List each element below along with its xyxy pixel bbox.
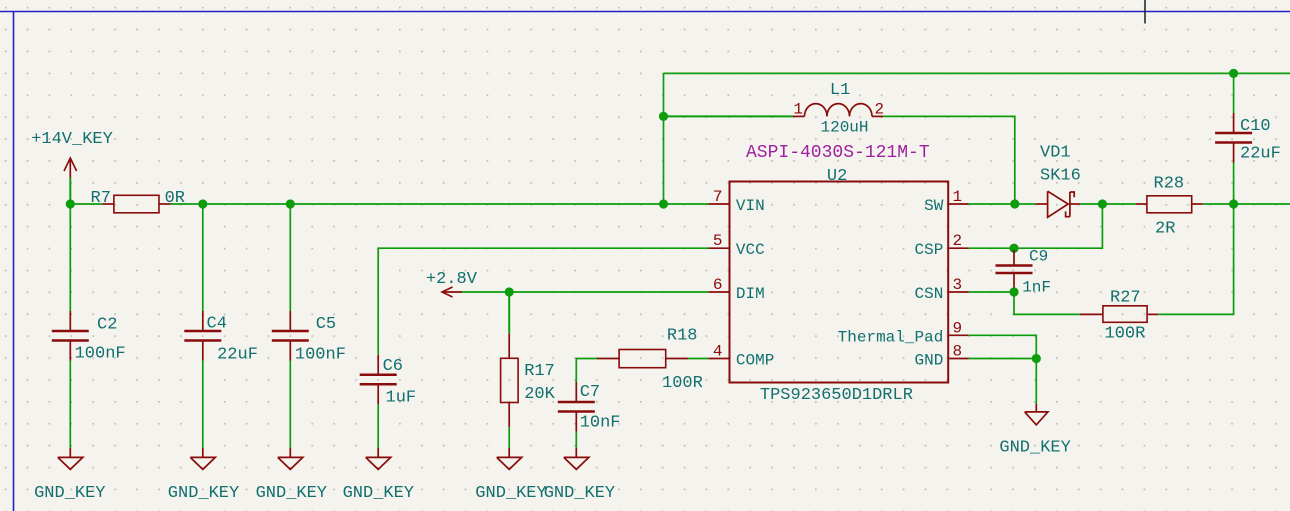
- svg-text:SW: SW: [924, 197, 944, 215]
- svg-text:20K: 20K: [524, 385, 555, 404]
- svg-text:GND_KEY: GND_KEY: [343, 484, 414, 503]
- wire VCC net: [378, 248, 708, 355]
- svg-text:GND_KEY: GND_KEY: [168, 484, 239, 503]
- wire R27 to output node: [1158, 204, 1234, 314]
- wire GND pin: [969, 358, 1037, 360]
- svg-text:C6: C6: [383, 357, 403, 376]
- wire L1 to SW node: [883, 116, 1015, 204]
- svg-text:+2.8V: +2.8V: [426, 270, 478, 289]
- wire SW pin to diode: [969, 203, 1036, 205]
- svg-text:+14V_KEY: +14V_KEY: [31, 130, 113, 149]
- wire CSN to R27: [1014, 292, 1080, 314]
- svg-text:SK16: SK16: [1040, 167, 1081, 186]
- op-amp U2 TPS923650D1DRLR (LED driver IC): [709, 143, 969, 405]
- svg-text:5: 5: [713, 232, 723, 250]
- junction C4 tap: [198, 199, 207, 208]
- svg-text:0R: 0R: [165, 189, 185, 208]
- svg-text:COMP: COMP: [736, 352, 774, 370]
- capacitor C5: [272, 204, 346, 365]
- ground GND_KEY (U2): [999, 404, 1070, 458]
- svg-text:R7: R7: [91, 189, 111, 208]
- svg-text:L1: L1: [830, 81, 850, 100]
- svg-text:1nF: 1nF: [1022, 279, 1051, 297]
- svg-text:22uF: 22uF: [1240, 145, 1281, 164]
- junction VD1 out: [1098, 199, 1107, 208]
- wire CSP net: [969, 204, 1103, 248]
- svg-text:R18: R18: [667, 327, 698, 346]
- svg-text:1: 1: [953, 188, 963, 206]
- wire R28 to output: [1203, 203, 1290, 205]
- inductor L1: [664, 81, 885, 137]
- junction top rail / C10: [1229, 69, 1238, 78]
- wire CSN net: [969, 291, 1014, 293]
- junction SW/L1/VD1 node: [1010, 199, 1019, 208]
- svg-text:100R: 100R: [1105, 325, 1146, 344]
- wire C6 to ground: [377, 404, 379, 448]
- wire C5 to ground: [289, 361, 291, 449]
- resistor R27: [1080, 289, 1158, 344]
- junction VIN pin: [659, 199, 668, 208]
- svg-text:2R: 2R: [1155, 220, 1175, 239]
- power symbol +14V_KEY: [31, 130, 113, 204]
- svg-text:ASPI-4030S-121M-T: ASPI-4030S-121M-T: [746, 143, 930, 163]
- capacitor C7: [558, 382, 621, 433]
- svg-text:1uF: 1uF: [386, 389, 417, 408]
- svg-text:VCC: VCC: [736, 241, 765, 259]
- junction GND / Thermal_Pad: [1032, 354, 1041, 363]
- capacitor C10: [1215, 73, 1281, 204]
- svg-text:3: 3: [953, 276, 963, 294]
- junction L1 branch: [659, 112, 668, 121]
- svg-text:R28: R28: [1154, 175, 1185, 194]
- svg-text:10nF: 10nF: [580, 414, 621, 433]
- svg-text:120uH: 120uH: [821, 119, 869, 137]
- svg-text:GND_KEY: GND_KEY: [256, 484, 327, 503]
- svg-text:GND: GND: [914, 352, 943, 370]
- svg-text:C7: C7: [580, 383, 600, 402]
- wire top rail: [664, 72, 1290, 74]
- svg-text:U2: U2: [827, 167, 847, 186]
- ground GND_KEY (C6): [343, 448, 414, 503]
- junction output node: [1229, 199, 1238, 208]
- capacitor C2: [52, 204, 126, 364]
- svg-text:TPS923650D1DRLR: TPS923650D1DRLR: [760, 386, 913, 405]
- svg-text:2: 2: [953, 232, 963, 250]
- ground GND_KEY (C7): [544, 448, 615, 503]
- capacitor C9: [996, 248, 1052, 297]
- svg-text:C2: C2: [97, 316, 117, 335]
- svg-text:100nF: 100nF: [295, 346, 346, 365]
- resistor R17: [501, 292, 556, 427]
- wire C4 to ground: [202, 361, 204, 449]
- wire GND to ground symbol: [1035, 359, 1037, 404]
- svg-text:C4: C4: [207, 315, 227, 334]
- svg-text:22uF: 22uF: [217, 346, 258, 365]
- svg-text:VD1: VD1: [1040, 144, 1071, 163]
- svg-text:VIN: VIN: [736, 197, 765, 215]
- resistor R28: [1136, 175, 1203, 239]
- svg-text:C10: C10: [1240, 117, 1271, 136]
- wire COMP to R18 and C7: [576, 359, 708, 383]
- resistor R18: [597, 327, 703, 394]
- wire VIN vertical riser: [663, 73, 665, 204]
- ground GND_KEY (C5): [256, 448, 327, 503]
- svg-text:2: 2: [875, 101, 885, 119]
- svg-text:R27: R27: [1110, 289, 1141, 308]
- svg-text:7: 7: [713, 188, 723, 206]
- junction CSP / C9: [1009, 244, 1018, 253]
- wire VD1 to R28: [1102, 203, 1136, 205]
- junction DIM / R17: [505, 287, 514, 296]
- wire C2 to ground: [69, 361, 71, 449]
- capacitor C4: [184, 204, 258, 365]
- svg-text:6: 6: [713, 276, 723, 294]
- svg-text:R17: R17: [524, 362, 555, 381]
- junction CSN / C9: [1009, 287, 1018, 296]
- svg-text:4: 4: [713, 343, 723, 361]
- svg-text:Thermal_Pad: Thermal_Pad: [838, 328, 944, 346]
- svg-text:CSN: CSN: [914, 285, 943, 303]
- capacitor C6: [360, 355, 416, 408]
- svg-text:9: 9: [953, 319, 963, 337]
- svg-text:C9: C9: [1029, 248, 1048, 266]
- wire VD1 cathode: [1080, 203, 1103, 205]
- svg-text:1: 1: [793, 101, 803, 119]
- ground GND_KEY (R17): [475, 448, 546, 503]
- ground GND_KEY (C4): [168, 448, 239, 503]
- svg-text:GND_KEY: GND_KEY: [34, 484, 105, 503]
- wire main +14V rail: [70, 203, 708, 205]
- wire Thermal_Pad to GND: [969, 335, 1037, 358]
- diode VD1 SK16: [1036, 144, 1081, 218]
- svg-text:DIM: DIM: [736, 285, 765, 303]
- svg-text:100R: 100R: [662, 374, 703, 393]
- svg-text:8: 8: [953, 343, 963, 361]
- svg-text:C5: C5: [316, 315, 336, 334]
- svg-text:GND_KEY: GND_KEY: [544, 484, 615, 503]
- ground GND_KEY (C2): [34, 448, 105, 503]
- wire R17 to ground: [508, 427, 510, 448]
- wire DIM net: [462, 291, 709, 293]
- junction at R7 left / +14V: [66, 199, 75, 208]
- power symbol +2.8V: [426, 270, 478, 297]
- junction C5 tap: [286, 199, 295, 208]
- wire C7 to ground: [575, 432, 577, 449]
- svg-text:100nF: 100nF: [75, 345, 126, 364]
- svg-text:GND_KEY: GND_KEY: [999, 439, 1070, 458]
- svg-text:CSP: CSP: [914, 241, 943, 259]
- svg-text:GND_KEY: GND_KEY: [475, 484, 546, 503]
- resistor R7: [91, 189, 186, 213]
